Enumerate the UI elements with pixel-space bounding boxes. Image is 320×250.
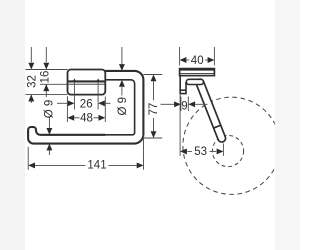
svg-text:53: 53 (194, 146, 207, 158)
svg-text:Ø 9: Ø 9 (117, 97, 129, 116)
svg-text:9: 9 (181, 101, 187, 113)
left gray band (0, 0, 25, 250)
extension line top of plate (26, 69, 68, 71)
dimension 16 (45, 47, 47, 62)
dimension diameter 9 left (48, 118, 50, 129)
svg-text:40: 40 (191, 55, 204, 67)
holder loop outer contour (front view) (28, 71, 143, 144)
arm tip seam (213, 125, 221, 128)
svg-text:48: 48 (80, 113, 93, 125)
right gray band (275, 0, 300, 250)
svg-text:26: 26 (80, 99, 93, 111)
extension line plate bottom (26, 94, 68, 96)
dimension 53 (187, 150, 192, 152)
48 extension lines (66, 96, 68, 122)
26 extension lines (73, 81, 75, 110)
arm attachment boss (186, 79, 203, 84)
svg-text:141: 141 (87, 160, 106, 172)
small dashed core circle (side view) (212, 135, 243, 166)
wall plate seam thin (68, 83, 104, 85)
dimension 77 (143, 74, 162, 76)
wall plate (front view) (68, 70, 106, 95)
dimension diameter 9 right (121, 47, 123, 64)
dimension 26 (57, 102, 68, 104)
dimension 40 (179, 47, 181, 66)
dimension 141 (35, 164, 86, 166)
svg-text:32: 32 (27, 75, 39, 88)
wall plate (side view) (180, 76, 186, 94)
dimension 48 (74, 117, 79, 119)
svg-text:Ø 9: Ø 9 (44, 100, 56, 119)
dimension 9 side (161, 103, 175, 105)
tiny seam arrows (73, 78, 76, 81)
holder loop inner contour (front view) (40, 80, 134, 135)
big dashed roll circle (side view) (183, 97, 280, 194)
dimension 32 (30, 47, 32, 62)
svg-text:16: 16 (40, 71, 52, 84)
arm tube (side view) (200, 83, 222, 138)
extension line seam level (40, 83, 68, 85)
svg-text:77: 77 (148, 103, 160, 116)
wall plate seam thick (68, 80, 104, 82)
flange (side view top bar) (180, 69, 215, 76)
